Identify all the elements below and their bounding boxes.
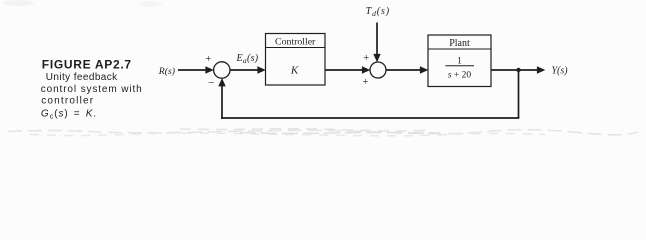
node T_d(s) disturbance label	[366, 6, 390, 18]
faint scan marks top-left	[2, 0, 34, 6]
takeoff node junction dot	[516, 68, 520, 72]
arrowhead up into summing junction 1	[218, 78, 225, 86]
svg-text:−: −	[208, 77, 214, 89]
node R(s) input label	[158, 66, 175, 77]
svg-text:R(s): R(s)	[158, 66, 175, 77]
svg-text:Controller: Controller	[275, 37, 316, 48]
svg-text:controller: controller	[41, 96, 94, 107]
wire plant to output Y(s)	[491, 69, 539, 71]
caption: figure number	[42, 58, 132, 72]
wire T_d(s) down into summing junction 2	[376, 23, 378, 57]
feedback wire: bottom run	[221, 117, 519, 119]
svg-text:Ea(s): Ea(s)	[236, 53, 259, 65]
svg-text:FIGURE AP2.7: FIGURE AP2.7	[42, 58, 132, 72]
feedback wire: down from takeoff	[518, 70, 520, 118]
svg-text:Y(s): Y(s)	[552, 66, 569, 77]
summing junction 1	[214, 62, 230, 78]
node Y(s) output label	[552, 66, 569, 77]
arrowhead into summing junction 2	[362, 66, 370, 73]
svg-text:+: +	[363, 53, 369, 64]
arrowhead into controller	[257, 66, 265, 73]
svg-text:Td(s): Td(s)	[366, 6, 390, 18]
svg-text:+: +	[363, 77, 369, 88]
svg-text:Plant: Plant	[449, 38, 470, 49]
feedback wire: up into summing junction 1	[221, 84, 223, 119]
node E_a(s) error signal label	[236, 53, 259, 65]
svg-text:K: K	[290, 65, 299, 77]
svg-text:+: +	[205, 54, 211, 65]
svg-text:control system with: control system with	[41, 84, 143, 95]
wire summing junction 2 to plant	[386, 69, 422, 71]
plant block G(s)	[428, 35, 491, 87]
arrowhead into plant	[420, 66, 428, 73]
wire controller to summing junction 2	[325, 69, 364, 71]
svg-text:Unity feedback: Unity feedback	[46, 72, 118, 83]
wire summing junction 1 to controller	[230, 69, 260, 71]
arrowhead to output	[537, 66, 545, 73]
caption: description	[41, 72, 143, 120]
summing junction 2	[370, 62, 386, 78]
scan noise band at bottom	[8, 129, 638, 136]
arrowhead into summing junction 1	[205, 66, 213, 73]
controller block U1	[266, 34, 326, 86]
arrowhead down into summing junction 2	[373, 54, 380, 62]
svg-text:s + 20: s + 20	[448, 71, 472, 81]
wire R(s) to summing junction 1	[178, 69, 208, 71]
svg-text:1: 1	[457, 57, 462, 67]
